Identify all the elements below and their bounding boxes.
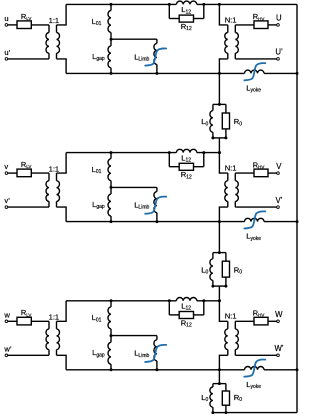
svg-text:Lyoke: Lyoke — [246, 380, 261, 390]
svg-text:R12: R12 — [181, 170, 192, 180]
svg-text:Lgap: Lgap — [92, 52, 105, 62]
svg-text:RLV: RLV — [21, 160, 32, 169]
svg-text:W: W — [275, 310, 283, 319]
svg-text:u: u — [4, 14, 8, 23]
svg-text:L01: L01 — [92, 165, 102, 175]
svg-text:v: v — [4, 162, 8, 171]
svg-text:L0: L0 — [201, 265, 208, 275]
svg-text:Lyoke: Lyoke — [246, 83, 261, 93]
svg-text:RLV: RLV — [21, 12, 32, 21]
svg-text:1:1: 1:1 — [49, 16, 60, 25]
svg-text:RHV: RHV — [253, 12, 265, 21]
svg-text:Lgap: Lgap — [92, 200, 105, 210]
svg-text:L12: L12 — [181, 153, 191, 163]
svg-text:V’: V’ — [276, 196, 283, 205]
svg-text:L01: L01 — [92, 313, 102, 323]
svg-text:RLV: RLV — [21, 308, 32, 317]
svg-text:v’: v’ — [4, 196, 10, 205]
svg-text:R0: R0 — [234, 265, 242, 275]
svg-text:W’: W’ — [274, 344, 283, 353]
svg-text:L0: L0 — [201, 393, 208, 403]
svg-text:U: U — [276, 14, 282, 23]
svg-text:N:1: N:1 — [225, 164, 237, 173]
svg-text:u’: u’ — [4, 48, 10, 57]
svg-text:V: V — [276, 162, 282, 171]
svg-text:L12: L12 — [181, 5, 191, 15]
svg-text:U’: U’ — [275, 48, 283, 57]
svg-text:L0: L0 — [201, 117, 208, 127]
svg-text:N:1: N:1 — [225, 15, 237, 24]
svg-text:RHV: RHV — [253, 160, 265, 169]
svg-text:w’: w’ — [3, 344, 11, 353]
svg-text:R0: R0 — [234, 117, 242, 127]
svg-text:LLimb: LLimb — [134, 52, 149, 62]
svg-text:L01: L01 — [92, 17, 102, 27]
svg-text:L12: L12 — [181, 302, 191, 312]
svg-text:Lgap: Lgap — [92, 348, 105, 358]
svg-text:1:1: 1:1 — [49, 164, 60, 173]
svg-text:R12: R12 — [181, 318, 192, 328]
svg-text:N:1: N:1 — [225, 312, 237, 321]
svg-text:w: w — [3, 310, 10, 319]
svg-text:R0: R0 — [234, 393, 242, 403]
svg-text:1:1: 1:1 — [49, 313, 60, 322]
svg-text:LLimb: LLimb — [134, 349, 149, 359]
svg-text:R12: R12 — [181, 22, 192, 32]
svg-text:Lyoke: Lyoke — [246, 232, 261, 242]
svg-text:LLimb: LLimb — [134, 201, 149, 211]
svg-text:RHV: RHV — [253, 309, 265, 318]
